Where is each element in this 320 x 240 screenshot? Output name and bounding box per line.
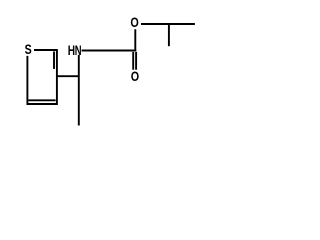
svg-text:S: S (25, 42, 32, 58)
svg-text:O: O (130, 15, 138, 30)
svg-text:N: N (75, 43, 82, 58)
svg-text:O: O (131, 69, 139, 84)
svg-text:H: H (68, 42, 75, 58)
